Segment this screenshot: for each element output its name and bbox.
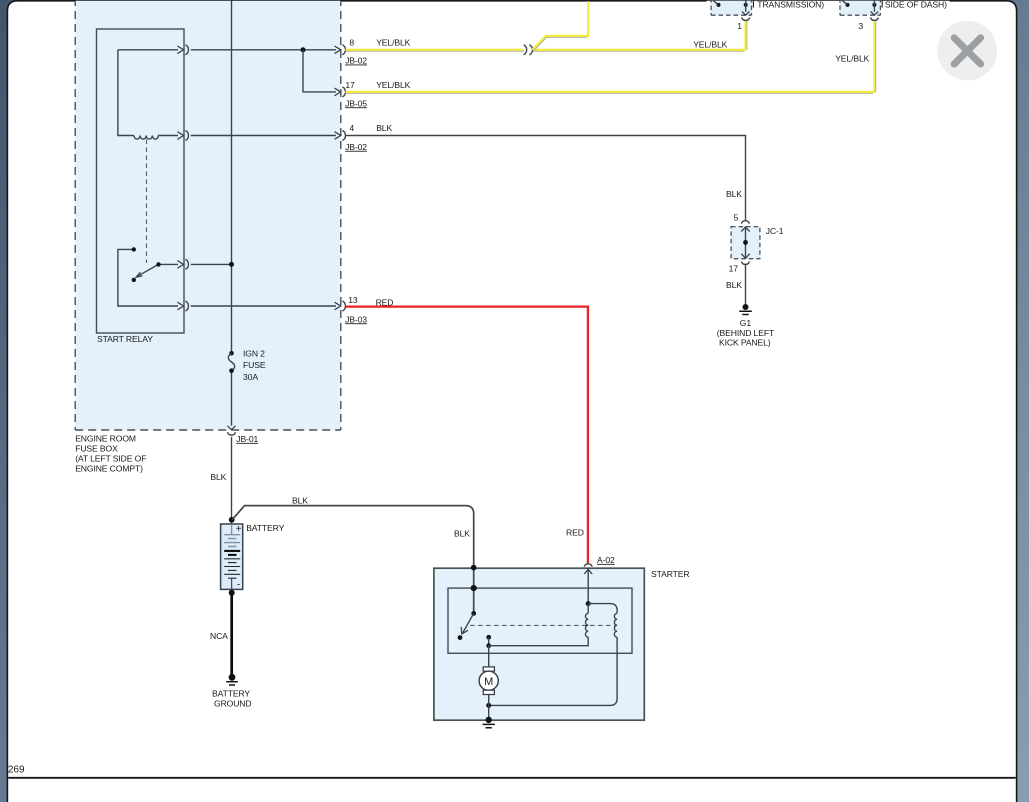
svg-text:YEL/BLK: YEL/BLK [693,39,727,49]
svg-text:BLK: BLK [292,496,308,506]
wire branch to JB-05 [303,50,336,92]
wire BLK battery to starter [232,506,473,568]
bottom rule [8,777,1015,779]
svg-text:BLK: BLK [376,123,392,133]
connector box (side of dash), cut at top [840,0,947,31]
svg-text:8: 8 [349,38,354,48]
svg-text:13: 13 [348,295,358,305]
fuse IGN 2 30A [228,349,265,382]
starter solenoid inner box [448,588,632,653]
svg-text:3: 3 [858,21,863,31]
close button [937,21,997,81]
svg-text:ENGINE ROOM: ENGINE ROOM [75,434,136,444]
solenoid pull-in coil [585,604,588,638]
svg-text:(BEHIND LEFT: (BEHIND LEFT [717,328,775,338]
svg-text:FUSE: FUSE [243,360,266,370]
wire relay pin8 to JB-02 [191,49,336,51]
node solenoid coil top [586,601,591,606]
battery [221,523,285,591]
labels right of fuse box [566,39,870,537]
wire YEL/BLK pin17 [345,21,874,92]
svg-text:BLK: BLK [726,280,742,290]
fuse box edge connector arrows JB-02/JB-05/JB-02/JB-03 [335,45,346,311]
svg-text:4: 4 [349,123,354,133]
svg-text:STARTER: STARTER [651,569,689,579]
engine room fuse box (dashed enclosure) [75,0,341,430]
svg-text:1: 1 [737,21,742,31]
svg-text:G1: G1 [740,318,752,328]
relay switch arm [132,247,161,282]
svg-text:ENGINE COMPT): ENGINE COMPT) [75,464,143,474]
svg-text:TRANSMISSION): TRANSMISSION) [757,0,824,10]
starter switch contact and motor feed [486,635,491,648]
pin labels JB rows [345,37,411,324]
starter assembly box [434,568,690,720]
svg-text:YEL/BLK: YEL/BLK [835,53,869,63]
svg-text:JB-05: JB-05 [345,98,367,108]
svg-text:BLK: BLK [210,472,226,482]
wire YEL/BLK pin8 [345,21,745,50]
wire BLK JB-01 to battery [231,437,233,524]
svg-text:IGN 2: IGN 2 [243,349,265,359]
svg-text:M: M [484,676,493,688]
motor M1 [479,667,498,695]
svg-text:BATTERY: BATTERY [212,689,250,699]
svg-text:A-02: A-02 [597,555,615,565]
svg-text:JB-03: JB-03 [345,314,367,324]
svg-text:-: - [237,580,240,591]
relay switch pivot wire [159,263,179,265]
inline connector on pin8 wire [524,45,533,55]
svg-text:(AT LEFT SIDE OF: (AT LEFT SIDE OF [75,454,146,464]
svg-text:JB-02: JB-02 [345,56,367,66]
fuse box caption [75,434,146,474]
wire YEL/BLK pin8 shadow [345,21,747,51]
wire JC-1 to ground G1 [745,265,747,304]
svg-text:SIDE OF DASH): SIDE OF DASH) [885,0,947,10]
wire motor leads [488,646,490,720]
wire BLK pin4 to JC-1 [345,136,745,221]
junction connector JC-1 [726,212,784,290]
svg-text:JB-01: JB-01 [236,434,258,444]
wire RED pin13 to starter A-02 [346,307,588,565]
svg-text:+: + [236,524,242,535]
starter switch feed wire [473,568,475,613]
relay coil L1 [134,136,158,140]
node starter case entry [471,565,477,571]
svg-text:BATTERY: BATTERY [246,523,284,533]
node solenoid box entry [471,585,477,591]
start relay box [97,29,185,344]
svg-text:JB-02: JB-02 [345,142,367,152]
solenoid mechanical dashed link [470,624,616,626]
svg-text:JC-1: JC-1 [766,226,784,236]
node junction on pin8 wire [301,47,306,52]
svg-text:17: 17 [345,80,355,90]
ground G1 [717,304,775,348]
svg-text:5: 5 [734,212,739,222]
wire hold-in coil to motor return [489,637,617,705]
node battery positive junction [229,517,235,523]
svg-text:FUSE BOX: FUSE BOX [75,444,118,454]
wire A-02 to pull-in coils [587,569,589,603]
svg-text:RED: RED [566,528,584,538]
wire YEL/BLK branch to page top [534,37,587,51]
svg-text:KICK PANEL): KICK PANEL) [719,338,771,348]
wire relay coil to JB-02 pin4 [191,135,336,137]
relay pin arrows at box edge [177,45,188,311]
connector box (on transmission), cut at top [711,0,824,31]
svg-text:GROUND: GROUND [214,699,251,709]
starter switch arm [458,611,477,640]
ground battery ground [212,674,251,709]
svg-text:17: 17 [729,264,739,274]
connector JB-01 at fuse box bottom [228,426,259,444]
node motor return junction [486,703,491,708]
connector A-02 [584,555,615,574]
svg-text:YEL/BLK: YEL/BLK [376,80,410,90]
wire relay pin13 to JB-03 [191,305,336,307]
solenoid hold-in coil [588,604,617,638]
svg-text:30A: 30A [243,372,258,382]
junction dot on pivot bus [229,262,234,267]
relay switch contact wire to pin 13 [118,249,178,306]
ignition bus vertical wire [231,0,233,426]
relay coil loop wire [118,50,178,136]
svg-text:START RELAY: START RELAY [97,334,153,344]
ground starter case [483,717,495,728]
wire relay pivot to ignition bus [191,263,232,265]
relay mechanical dashed link [146,140,148,264]
svg-text:BLK: BLK [454,529,470,539]
svg-text:BLK: BLK [726,189,742,199]
wire contact to pull-in coil [489,637,589,646]
wire YEL/BLK pin17 shadow [345,21,875,93]
svg-text:NCA: NCA [210,631,228,641]
wire NCA battery to ground [210,590,235,675]
svg-text:YEL/BLK: YEL/BLK [376,37,410,47]
white patch hiding page border behind top component labels [707,0,950,2]
